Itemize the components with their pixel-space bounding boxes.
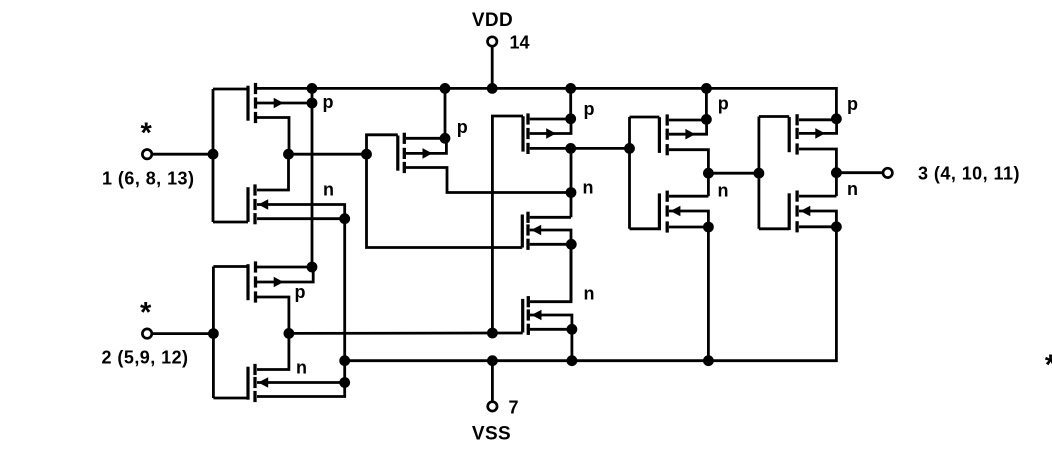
wire Q4 drain <box>257 337 289 370</box>
label n Q7 <box>583 178 594 198</box>
node Q4 body <box>339 377 350 388</box>
svg-text:p: p <box>847 94 858 114</box>
wire output <box>836 171 883 174</box>
transistor Q12 (n) <box>789 191 810 233</box>
node Q2 source <box>339 213 350 224</box>
svg-text:p: p <box>295 282 306 302</box>
wire Q3 drain <box>257 266 312 269</box>
VDD label <box>472 10 513 31</box>
VDD rail <box>256 88 837 118</box>
node Q8 source <box>567 324 578 335</box>
wire Q6 body <box>530 119 571 134</box>
transistor Q6 (p) <box>523 113 556 154</box>
node VSS-x571 <box>567 355 578 366</box>
VDD terminal <box>488 37 497 46</box>
node Q9 drain <box>701 114 712 125</box>
wire Q6 source <box>530 147 630 150</box>
wire Q7 source <box>530 243 571 246</box>
wire gate stub Q10 <box>630 227 660 230</box>
wire Q10 source <box>669 226 708 229</box>
input 2 label <box>102 348 189 368</box>
wire Q10 body <box>669 211 708 227</box>
node Q5 source junction <box>566 187 577 198</box>
wire stage2 output vertical <box>570 148 573 217</box>
wire Q5 vdd branch <box>444 88 447 138</box>
transistor Q8 (n) <box>523 296 542 335</box>
wire Q3 body <box>257 267 313 282</box>
svg-text:n: n <box>584 283 595 303</box>
svg-text:7: 7 <box>509 398 519 418</box>
svg-text:n: n <box>718 181 729 201</box>
wire Q12 drain <box>799 195 836 198</box>
wire gate stub Q2 <box>213 221 248 224</box>
wire Q9-Q10 vertical <box>707 173 710 196</box>
transistor Q5 (p) <box>398 133 433 173</box>
label n Q12 <box>847 179 858 199</box>
wire gate stub Q4 <box>213 397 248 400</box>
wire x312 vertical <box>311 88 314 267</box>
wire Q10 drain <box>669 195 708 198</box>
transistor Q11 (p) <box>789 114 825 154</box>
node VDD-x445 <box>440 83 451 94</box>
transistor Q7 (n) <box>522 212 541 250</box>
wire Q1 source <box>257 118 289 152</box>
svg-text:n: n <box>583 178 594 198</box>
node Q6 source <box>565 143 576 154</box>
wire Q5 gate loop <box>367 135 523 248</box>
node Q7 source <box>566 239 577 250</box>
wire Q6 gate loop <box>492 116 523 333</box>
wire Q7-Q8 series <box>570 244 573 301</box>
transistor Q9 (p) <box>659 114 695 155</box>
input 2 asterisk <box>140 297 152 329</box>
wire Q11 source <box>799 149 836 173</box>
wire input1 gate column <box>212 89 215 222</box>
wire Q7 drain <box>530 216 571 219</box>
node VDD-x312 <box>307 83 318 94</box>
transistor Q2 (n) <box>248 184 268 224</box>
node output <box>831 167 842 178</box>
wire Q9 body <box>669 120 707 134</box>
label p Q1 <box>323 92 334 112</box>
VSS rail <box>345 227 837 361</box>
wire Q2 drain <box>257 157 289 190</box>
transistor Q4 (n) <box>248 364 268 402</box>
output terminal <box>883 168 892 177</box>
wire Q9 source <box>669 150 708 174</box>
label n Q8 <box>584 283 595 303</box>
label p Q5 <box>457 117 468 137</box>
wire Q12 source <box>799 225 836 228</box>
label n Q4 <box>296 358 307 378</box>
svg-text:n: n <box>323 180 334 200</box>
input 1 terminal <box>142 150 151 159</box>
transistor Q10 (n) <box>659 191 680 233</box>
node stage4 input <box>754 168 765 179</box>
svg-text:n: n <box>847 179 858 199</box>
wire Q3 source <box>257 297 289 330</box>
node stage1 output <box>283 149 294 160</box>
input 1 asterisk <box>141 118 153 150</box>
label n Q2 <box>323 180 334 200</box>
label p Q9 <box>718 93 729 113</box>
wire input2 <box>152 332 214 335</box>
wire gate stub Q9 <box>630 116 660 119</box>
wire Q8 body <box>530 315 572 329</box>
input 1 label <box>102 169 194 189</box>
svg-text:p: p <box>457 117 468 137</box>
wire Q6 vdd branch <box>569 88 572 118</box>
wire Q11 drain <box>799 118 836 121</box>
node Q5 drain <box>440 133 451 144</box>
wire Q11 body <box>799 120 837 134</box>
node Q12 source <box>831 221 842 232</box>
VSS terminal <box>488 402 497 411</box>
svg-text:*: * <box>1045 350 1052 382</box>
wire input2 gate column <box>212 267 215 399</box>
label p Q11 <box>847 94 858 114</box>
wire gate stub Q11 <box>759 115 789 118</box>
wire x344 vertical <box>343 219 346 383</box>
node VSS-x344 <box>339 355 350 366</box>
wire stage3 gate column <box>628 117 631 229</box>
transistor Q1 (p) <box>248 83 284 123</box>
node Q5 gate <box>361 149 372 160</box>
wire Q8 to VSS <box>571 329 574 360</box>
svg-text:*: * <box>140 297 152 329</box>
wire Q11-Q12 vertical <box>835 173 838 196</box>
wire gate stub Q12 <box>759 227 789 230</box>
node stage2 input <box>284 328 295 339</box>
svg-text:n: n <box>296 358 307 378</box>
node Q6 gate <box>487 328 498 339</box>
wire stage3 output <box>708 172 759 175</box>
footnote asterisk <box>1045 350 1052 382</box>
wire Q1 body <box>257 102 312 105</box>
wire Q9 vdd branch <box>705 88 708 119</box>
pin 7 label <box>509 398 519 418</box>
wire VDD feed <box>491 46 494 88</box>
node stage3 input <box>624 143 635 154</box>
node input1 <box>208 149 219 160</box>
node input2 <box>208 328 219 339</box>
node stage3 output <box>703 168 714 179</box>
pin 14 label <box>510 33 530 53</box>
node VSS-x708 <box>703 355 714 366</box>
node Q10 source <box>703 222 714 233</box>
node VDD-x706 <box>701 83 712 94</box>
node VDD feed junction <box>487 83 498 94</box>
node Q11 drain <box>831 113 842 124</box>
wire VSS feed <box>491 361 494 402</box>
svg-text:VDD: VDD <box>472 10 513 31</box>
wire Q8 drain <box>530 247 571 302</box>
node Q1 body <box>307 98 318 109</box>
svg-text:3 (4, 10, 11): 3 (4, 10, 11) <box>918 164 1020 184</box>
wire Q10 to VSS <box>707 227 710 361</box>
wire Q9 drain <box>669 119 706 122</box>
wire Q8 gate stub <box>492 332 522 335</box>
wire Q2 source <box>257 217 345 220</box>
node Q6 drain <box>565 113 576 124</box>
wire gate stub Q3 <box>213 265 248 268</box>
node VSS feed junction <box>487 355 498 366</box>
input 2 terminal <box>142 329 151 338</box>
output label <box>918 164 1020 184</box>
label n Q10 <box>718 181 729 201</box>
wire Q12 body <box>799 211 836 227</box>
wire NAND gate-2 net <box>289 332 493 335</box>
wire Q7 body <box>530 230 571 244</box>
wire Q4 body <box>257 381 345 384</box>
svg-text:p: p <box>584 99 595 119</box>
wire Q5 body <box>406 138 446 153</box>
wire Q4 source <box>257 384 345 397</box>
svg-text:p: p <box>323 92 334 112</box>
wire gate stub Q1 <box>213 88 248 91</box>
svg-text:*: * <box>141 118 153 150</box>
svg-text:1 (6, 8, 13): 1 (6, 8, 13) <box>102 169 194 189</box>
svg-text:2 (5,9, 12): 2 (5,9, 12) <box>102 348 189 368</box>
VSS label <box>472 423 511 444</box>
wire stage4 gate column <box>758 117 761 229</box>
label p Q6 <box>584 99 595 119</box>
node Q3 drain <box>307 262 318 273</box>
node VDD-x570 <box>565 83 576 94</box>
transistor Q3 (p) <box>248 261 284 302</box>
wire Q6 drain <box>530 118 571 121</box>
label p Q3 <box>295 282 306 302</box>
wire Q5 drain <box>406 137 445 140</box>
wire Q5 source <box>406 168 571 193</box>
wire stage1 output <box>289 153 367 156</box>
svg-text:p: p <box>718 93 729 113</box>
svg-text:14: 14 <box>510 33 530 53</box>
wire input1 <box>152 153 213 156</box>
svg-text:VSS: VSS <box>472 423 511 444</box>
wire Q2 body <box>257 205 345 219</box>
wire Q8 source <box>530 328 572 331</box>
